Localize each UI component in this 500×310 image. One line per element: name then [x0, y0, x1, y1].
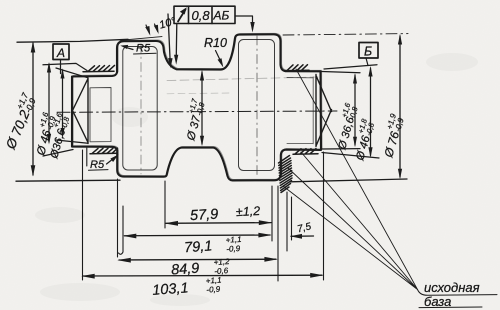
dimension D37 neck line — [201, 72, 203, 144]
dimension D36.6 left text — [43, 111, 73, 161]
dimension D76 text — [377, 112, 407, 160]
angle extension over cheek — [120, 37, 162, 41]
svg-text:-0,9: -0,9 — [226, 244, 241, 254]
hatch above left journal — [83, 65, 115, 71]
dimension D46 left text — [30, 111, 59, 158]
dimension 57.9 line — [166, 222, 271, 225]
dimension D76 extension dash line top — [283, 34, 408, 35]
svg-text:R5: R5 — [136, 43, 151, 55]
dimension D76 line — [290, 36, 407, 182]
hatch above right journal — [285, 65, 309, 71]
angle 10 deg wedge lines — [168, 14, 177, 65]
left journal inner contour — [90, 88, 111, 142]
datum B leader — [366, 58, 368, 66]
dimension 84.9 line — [119, 258, 276, 261]
R5 bottom arrow — [107, 159, 114, 165]
datum B frame — [359, 43, 378, 59]
dimension D36.6 left line — [56, 68, 88, 143]
datum A frame — [53, 44, 69, 60]
datum leader lines — [283, 69, 418, 290]
R5 top arrow — [124, 47, 133, 50]
note iskhodnaya baza — [424, 280, 480, 309]
dimension 103.1 line — [83, 274, 322, 277]
right cheek inner contour — [239, 40, 275, 171]
svg-text:АБ: АБ — [213, 9, 230, 23]
datum A leader — [60, 60, 62, 74]
svg-text:103,1: 103,1 — [152, 280, 189, 298]
dimension D37 text — [180, 97, 208, 143]
dimension D70.2 text — [0, 91, 39, 152]
extension lines 7.5 — [287, 192, 292, 251]
svg-text:57,9: 57,9 — [190, 207, 219, 224]
dimension D70.2 line — [16, 39, 128, 181]
extension line cheek1 left lower — [118, 179, 124, 257]
part outline sketch double stroke — [73, 33, 322, 179]
extension line 84.9 right — [277, 186, 279, 281]
left cheek inner contour — [123, 47, 157, 171]
left cheek center dash line — [140, 44, 142, 174]
dimension D36.6 right text — [331, 101, 361, 152]
extension line cheek2 right lower — [271, 186, 273, 241]
dimension 84.9 text — [171, 257, 231, 279]
part outline — [72, 34, 321, 180]
frame leader to right cheek — [235, 16, 253, 30]
svg-text:±1,2: ±1,2 — [236, 204, 261, 219]
dimension 79.1 line — [125, 234, 271, 237]
faint construction line neck — [167, 92, 229, 95]
dimension D46 right line — [322, 65, 379, 158]
runout tolerance frame — [174, 6, 235, 23]
R10 arrow — [216, 51, 222, 64]
right journal cone taper — [316, 75, 332, 147]
svg-text:база: база — [424, 294, 451, 309]
right journal inner contour — [287, 77, 313, 144]
angle small arrows — [146, 24, 158, 33]
faint construction line upper — [167, 77, 318, 81]
dimension 103.1 text — [152, 275, 223, 298]
dimension 79.1 text — [184, 235, 243, 257]
svg-text:R5: R5 — [90, 159, 105, 171]
extension line 103.1 left — [83, 148, 87, 280]
svg-text:исходная: исходная — [424, 280, 480, 295]
dimension D36.6 right line — [322, 72, 360, 150]
svg-text:79,1: 79,1 — [184, 238, 213, 256]
svg-text:-0,6: -0,6 — [214, 266, 229, 276]
svg-text:А: А — [56, 46, 65, 60]
centerline main axis — [57, 111, 337, 112]
runout symbol arrow — [178, 10, 186, 22]
svg-text:R10: R10 — [204, 36, 227, 50]
datum feather hatch on right cheek edge — [279, 156, 293, 193]
svg-text:-0,9: -0,9 — [206, 285, 221, 295]
svg-text:0,8: 0,8 — [192, 8, 211, 23]
extension line 103.1 right — [323, 152, 325, 280]
svg-text:Б: Б — [364, 45, 372, 59]
hatch below right journal — [293, 149, 318, 155]
dimension D46 left line — [43, 63, 87, 156]
hatch below left journal — [90, 148, 118, 154]
extension line hump-left — [164, 181, 166, 228]
dimension 57.9 text — [190, 204, 261, 224]
dimension D46 right text — [349, 117, 378, 163]
right cheek center dash line — [256, 36, 258, 178]
left journal cone taper — [73, 78, 88, 144]
